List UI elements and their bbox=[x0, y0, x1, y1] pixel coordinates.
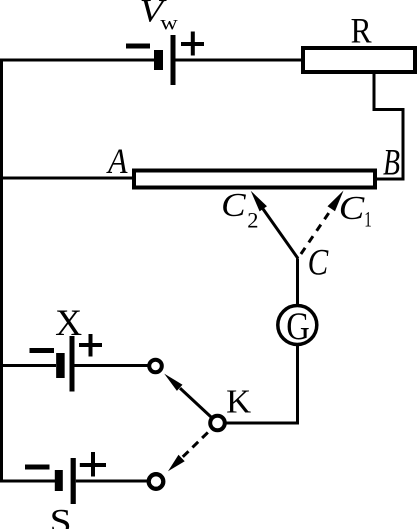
switch pivot K bbox=[210, 416, 225, 431]
svg-text:w: w bbox=[160, 14, 178, 35]
wire: galvanometer down and left to switch pivot K bbox=[226, 345, 298, 424]
wire: R bottom jog down to node B bbox=[374, 74, 403, 179]
label V_w minus sign bbox=[126, 44, 150, 49]
svg-text:C: C bbox=[221, 187, 246, 224]
svg-text:R: R bbox=[351, 10, 372, 50]
svg-text:C: C bbox=[339, 190, 365, 227]
svg-text:A: A bbox=[106, 141, 128, 181]
battery V_w bbox=[159, 35, 174, 85]
wire: V_w positive plate to resistor R bbox=[176, 59, 304, 62]
wire: S battery row (left bus to plates) bbox=[2, 480, 56, 483]
switch K solid arm with arrow toward X contact bbox=[164, 374, 217, 423]
label S plus sign bbox=[80, 452, 106, 477]
battery X bbox=[60, 336, 72, 392]
label X plus sign bbox=[79, 334, 102, 357]
label C2 bbox=[221, 187, 258, 233]
battery S bbox=[59, 458, 73, 504]
svg-text:S: S bbox=[50, 502, 72, 529]
wire: top horizontal from left corner to V_w negative plate bbox=[2, 59, 155, 62]
wire: left vertical bus bbox=[0, 59, 3, 483]
label V_w plus sign bbox=[181, 32, 204, 56]
svg-text:2: 2 bbox=[247, 207, 258, 232]
sliding contact arm C1 (dashed arrow) bbox=[301, 191, 344, 255]
svg-text:1: 1 bbox=[364, 206, 372, 231]
wire: X battery row (left bus to plates) bbox=[2, 364, 57, 367]
wire: S battery to lower switch contact bbox=[76, 480, 148, 483]
resistor R bbox=[303, 48, 415, 72]
wire: node A to slide wire bbox=[2, 177, 133, 180]
svg-text:C: C bbox=[308, 242, 330, 283]
svg-text:K: K bbox=[226, 383, 251, 420]
sliding contact arm C2 (solid arrow) bbox=[251, 191, 298, 259]
switch K dashed arm with arrow toward S contact bbox=[168, 423, 218, 471]
label C1 bbox=[339, 190, 372, 232]
galvanometer G bbox=[278, 305, 317, 348]
wire: X battery to upper switch contact bbox=[75, 364, 149, 367]
slide wire AB (potentiometer track) bbox=[134, 171, 375, 188]
svg-text:G: G bbox=[286, 305, 310, 348]
switch contact (X side) bbox=[149, 360, 162, 373]
label V_w bbox=[140, 0, 178, 35]
label S minus sign bbox=[25, 465, 50, 470]
switch contact (S side) bbox=[149, 474, 164, 489]
svg-text:B: B bbox=[383, 143, 400, 184]
svg-text:X: X bbox=[55, 302, 82, 343]
label X minus sign bbox=[30, 348, 55, 353]
wire: node C down to galvanometer bbox=[296, 259, 299, 307]
